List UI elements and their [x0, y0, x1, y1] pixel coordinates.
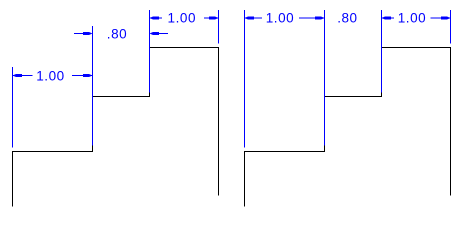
left figure: extension line at x=92.5 (shared, over riser): [92, 26, 94, 146]
right stair-step object outline: [245, 48, 451, 207]
right figure: extension line at x=450.5: [450, 10, 452, 43]
left figure: extension line at x=149.5 (shared, over riser): [149, 10, 151, 93]
left figure: arrowhead left of dim 1.00 lower: [13, 74, 23, 77]
right figure: arrowhead left of dim 1.00 left: [245, 17, 255, 20]
right figure: extension line at x=324.5 (over riser): [324, 10, 326, 146]
svg-text:1.00: 1.00: [266, 11, 294, 26]
right figure: arrowhead right of dim 1.00 right: [441, 17, 451, 20]
left figure: dim .80 outside arrow right (head+tail): [150, 32, 169, 35]
left figure: arrowhead left of dim 1.00 top: [150, 17, 160, 20]
right figure: extension line at x=244.5: [244, 10, 246, 147]
left figure: arrowhead right of dim 1.00 lower: [83, 74, 93, 77]
right figure: arrowhead right of dim 1.00 left: [315, 17, 325, 20]
left figure: arrowhead right of dim 1.00 top: [209, 17, 219, 20]
left figure: dimension line 1.00 (lower left): [13, 75, 93, 77]
left figure: dimension line 1.00 (top right): [150, 17, 219, 19]
svg-text:.80: .80: [337, 11, 357, 26]
left figure: dim .80 outside arrow left (tail+head): [74, 32, 93, 35]
svg-text:.80: .80: [107, 27, 127, 42]
right figure: dimension line 1.00 (left): [245, 17, 325, 19]
right figure: dim .80 outside arrow right (head, merged with next dim line): [382, 17, 392, 20]
svg-text:1.00: 1.00: [36, 69, 64, 84]
left stair-step object outline: [13, 48, 219, 207]
right figure: dimension line 1.00 (right): [382, 17, 451, 19]
right figure: extension line at x=381.5 (over riser): [381, 10, 383, 93]
left figure: extension line at x=218.5: [218, 10, 220, 43]
left figure: extension line at x=12.5 (dim 1.00 left): [12, 67, 14, 147]
svg-text:1.00: 1.00: [398, 11, 426, 26]
svg-text:1.00: 1.00: [168, 11, 196, 26]
